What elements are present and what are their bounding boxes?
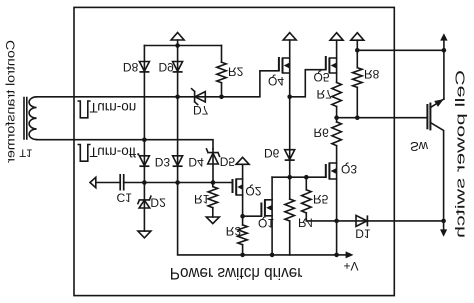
svg-text:Q5: Q5 [314,70,330,84]
terminal arrow below D2 (open, down) [138,231,151,238]
svg-text:D6: D6 [264,146,280,160]
svg-text:D7: D7 [193,103,209,117]
pulse waveform symbol turn-on [78,101,90,118]
wire: turn-on row from coil to Q4 gate [37,71,279,97]
rail arrow at Q4 source (open) [289,40,291,58]
transistor SW emitter lead [430,123,443,221]
svg-text:D4: D4 [188,155,204,169]
wire: D5 branch vertical [212,149,214,183]
junction: cell positive node [442,48,447,53]
wire: D1 row to SW emitter line [337,220,444,222]
wire: Q1 source row to Q3 gate [272,176,326,178]
junction: Q1 drain on +V rail [270,253,275,258]
junction: top bus / rail arrow [175,43,180,48]
rail arrow at Q2 source (open) [242,164,244,179]
junction: R7 bottom / gate bus [334,115,339,120]
svg-text:C1: C1 [117,191,133,205]
svg-text:D9: D9 [159,60,175,74]
svg-text:R7: R7 [317,87,333,101]
svg-text:R1: R1 [194,192,210,206]
input terminal arrow (open, left) [90,177,96,187]
resistor R7 [336,73,338,83]
svg-text:R6: R6 [314,126,330,140]
transformer T1 secondary coil [29,97,36,140]
svg-text:D3: D3 [155,155,171,169]
capacitor C1 [96,182,145,184]
junction: R2 bottom on turn-on wire [219,95,224,100]
zener diode D7 on turn-on wire [192,89,198,105]
MOSFET Q3 [325,164,327,178]
svg-text:R3: R3 [226,224,242,238]
junction: R8 top node [355,48,360,53]
svg-text:R5: R5 [313,192,329,206]
wire: R8 top to cell positive line [357,49,444,51]
diode D9 [173,62,183,72]
junction: D6 bottom / Q1 source row [287,175,292,180]
diode D4 [173,156,183,166]
wire: D9 branch vertical [177,46,179,97]
wire: Q1 drain to +V rail [271,216,273,255]
junction: Q3 drain / D1 row [334,219,339,224]
svg-text:D2: D2 [150,196,166,210]
wire: top bus joining D8 D9 R2 [144,45,221,47]
node +V terminal arrow (filled, right) [337,254,346,256]
svg-text:Q4: Q4 [268,74,284,88]
resistor R6 [336,118,338,122]
diode D3 [139,156,149,166]
junction: Q2 drain / R3 / Q1 gate [240,214,245,219]
diode D8 [139,62,149,72]
MOSFET Q5 [325,56,327,70]
terminal arrow below R1 (open, down) [206,217,219,224]
transistor SW gate bar [426,104,428,129]
svg-text:Turn-on: Turn-on [90,100,137,115]
rail arrow at top bus (open) [177,40,179,46]
wire: D3 branch vertical [143,140,145,183]
junction: C1 / D3 branch [142,180,147,185]
wire: turn-off row from coil to D5 [37,140,213,149]
block border: Power switch driver box [74,7,394,295]
terminal arrow to cell positive (filled, up) [443,40,445,50]
svg-text:Q3: Q3 [341,162,357,176]
svg-text:Control transformer: Control transformer [4,40,18,164]
junction: Q4 drain node [287,95,292,100]
svg-text:Cell power switch: Cell power switch [453,70,467,238]
junction: R3 bottom on +V rail [240,253,245,258]
svg-text:R8: R8 [364,67,380,81]
junction: D1 row / SW emitter line [441,219,446,224]
wire: +V rail from D4 branch corner [178,183,337,255]
wire: Q4 drain drop [289,73,291,97]
transistor SW channel bar [429,103,431,131]
wire: Q4 drain to Q5 gate [290,70,326,97]
zener diode D2 [138,196,151,203]
resistor R1 [212,183,214,187]
junction: D5 / R1 on bias row [211,180,216,185]
transformer T1 core bars [24,98,27,140]
diode D1 [356,215,367,226]
pulse waveform symbol turn-off [78,145,90,162]
svg-text:Turn-off: Turn-off [90,145,137,160]
junction: +V rail end node [334,253,339,258]
resistor R8 [356,50,358,67]
wire: D2 branch vertical [143,183,145,232]
wire: gate bias row from C1 to Q2 gate [144,182,232,184]
wire: gate bus to SW gate [337,117,428,119]
MOSFET Q1 [260,203,262,217]
resistor R5 [305,177,307,190]
wire: Q2 drain to Q1 gate [243,215,262,217]
wire: Q2 drain drop [242,195,244,216]
svg-text:R2: R2 [228,65,244,79]
svg-text:Q1: Q1 [258,216,274,230]
wire: D4 branch vertical [177,97,179,183]
junction: D9 branch on turn-on wire [175,95,180,100]
rail arrow at R8 top (open) [356,40,358,50]
svg-text:D5: D5 [220,154,236,168]
svg-text:T1: T1 [19,147,32,159]
transistor SW collector lead with arrow [430,99,444,108]
MOSFET Q4 [278,57,280,71]
svg-text:Q2: Q2 [245,184,261,198]
junction: D8 branch on turn-off wire [142,137,147,142]
rail arrow at Q5 source (open) [336,40,338,58]
wire: R5 bottom elbow to D1 row [306,213,336,221]
svg-text:Sw: Sw [410,139,429,154]
diode D6 [285,150,295,160]
wire: D8 branch vertical [143,46,145,140]
resistor R4 [289,177,291,199]
svg-text:D8: D8 [123,60,139,74]
svg-text:Power switch driver: Power switch driver [170,264,303,283]
junction: R5 top on Q1 source row [304,175,309,180]
stray printed dot after Turn-off label [137,153,139,155]
wire: D6 branch vertical [289,97,291,177]
wire: Q3 drain down to +V rail [336,179,338,255]
MOSFET Q2 [232,179,234,193]
zener diode D5 [207,149,220,156]
resistor R2 [221,46,223,63]
svg-text:D1: D1 [355,226,371,240]
junction: R8 bottom / gate bus [355,115,360,120]
terminal arrow to cell negative (filled, down) [443,221,445,230]
wire: Q1 source riser [271,177,273,200]
resistor R3 [242,216,244,225]
junction: D4 branch on bias row [175,180,180,185]
svg-text:+V: +V [344,259,359,273]
